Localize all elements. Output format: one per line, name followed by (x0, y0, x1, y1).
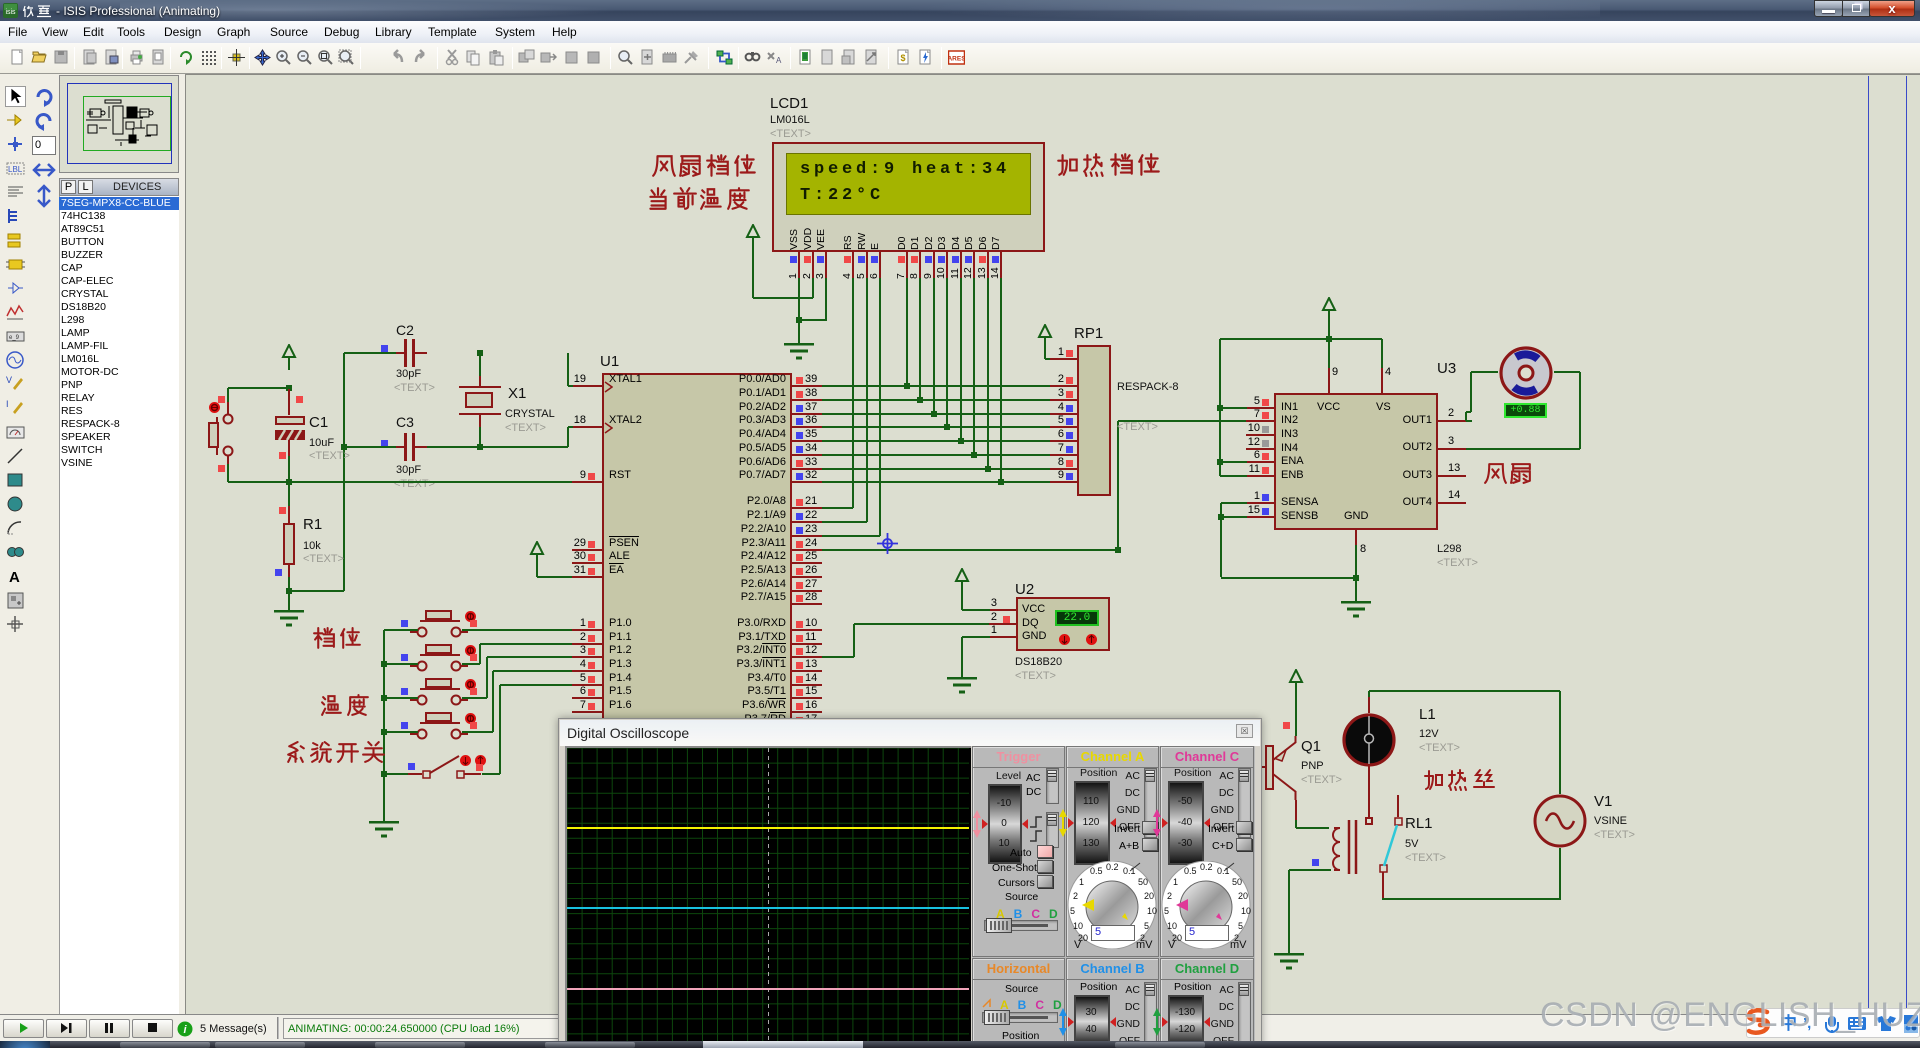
push button P1.3 (402, 710, 476, 746)
wire (462, 629, 572, 631)
ground (LCD VSS) (783, 343, 815, 361)
U3 pin 9 VCC (1328, 368, 1330, 394)
svg-text:D2: D2 (923, 236, 935, 250)
U3 pin 8 GND (1355, 530, 1357, 545)
motor U3 fan (1498, 345, 1554, 401)
LCD1 screen line1 (800, 160, 1010, 179)
scope trigger cursor (768, 748, 769, 1048)
RL1 state square (1312, 859, 1319, 866)
svg-text:mV: mV (1230, 939, 1247, 949)
wire (1559, 691, 1561, 794)
wire (946, 278, 948, 427)
LCD1 pin 5 RW (866, 252, 868, 278)
wire (1221, 577, 1356, 579)
svg-text:LBL: LBL (8, 165, 23, 174)
ime icons (1780, 1012, 1920, 1036)
close button (1869, 0, 1915, 17)
U1 pin 37 (792, 413, 822, 415)
wire (1554, 371, 1580, 373)
power terminal (Q1) (1288, 669, 1304, 695)
wire (973, 278, 975, 455)
wire IN2 (1118, 420, 1247, 422)
U1 pin 28 (792, 603, 822, 605)
U1 pin 21 (792, 507, 822, 509)
RP1 pin 9 (1050, 481, 1077, 483)
push button P1.2 (402, 676, 476, 712)
junction (931, 411, 937, 417)
svg-text:10: 10 (1147, 906, 1157, 916)
junction (381, 661, 387, 667)
push button P1.1 (402, 642, 476, 678)
RP1 value (1117, 381, 1179, 393)
U1 pin 29 (572, 549, 602, 551)
U3 pin 10 (1246, 434, 1274, 436)
wire (492, 671, 494, 732)
svg-text:V: V (6, 375, 12, 385)
wire OUT1-motor (1466, 420, 1472, 422)
wire (822, 656, 854, 658)
svg-text:50: 50 (1138, 877, 1148, 887)
svg-text:RW: RW (856, 233, 868, 250)
driver U3 label (1437, 360, 1456, 377)
svg-text:D5: D5 (963, 236, 975, 250)
wire (427, 446, 568, 448)
voltage source V1 (VSINE) (1532, 793, 1588, 849)
svg-text:D4: D4 (950, 236, 962, 250)
input method bar (1746, 1008, 1920, 1038)
relay RL1 coil (1322, 818, 1362, 880)
svg-text:5: 5 (1070, 906, 1075, 916)
power terminal (RST) (281, 344, 297, 370)
U1 pin 16 (792, 711, 822, 713)
wire (1220, 407, 1247, 409)
wire (752, 248, 754, 298)
wire button trunk (383, 630, 385, 774)
wire (822, 521, 867, 523)
U1 pin 2 (572, 643, 602, 645)
U1 pin 15 (792, 697, 822, 699)
U2 pin 1 (989, 636, 1016, 638)
U1 pin 31 (572, 576, 602, 578)
scope trace B (567, 907, 969, 909)
junction (286, 479, 292, 485)
U1 pin 11 (792, 643, 822, 645)
wire (987, 278, 989, 469)
wire (1221, 516, 1247, 518)
svg-text:2: 2 (1073, 891, 1078, 901)
U2 pin 3 (989, 609, 1016, 611)
relay RL1 contact (1365, 817, 1373, 825)
annotation temp (320, 693, 372, 723)
wire (799, 319, 826, 321)
sheet border (1868, 76, 1869, 1012)
svg-text:A: A (776, 56, 782, 65)
wire (568, 426, 573, 428)
svg-text:V: V (1168, 939, 1176, 949)
U3 pin 7 (1246, 420, 1274, 422)
transistor Q1 (PNP) (1258, 730, 1302, 800)
wire (536, 565, 538, 577)
wire (567, 353, 569, 387)
svg-text:0.5: 0.5 (1090, 866, 1103, 876)
U1 pin 18 (572, 426, 602, 428)
R1 label (303, 516, 322, 533)
wire button-C1 top (228, 387, 289, 389)
junction (477, 350, 483, 356)
annotation system switch (283, 740, 387, 770)
svg-text:VEE: VEE (815, 229, 827, 250)
U3 pin 15 (1246, 516, 1274, 518)
ground (switch trunk) (368, 821, 400, 839)
LCD1 screen line2 (800, 186, 884, 205)
U3 pin 1 (1246, 502, 1274, 504)
U3 pin 2 (1438, 420, 1466, 422)
X1 value (505, 408, 555, 420)
U1 pin 22 (792, 521, 822, 523)
svg-text:D3: D3 (936, 236, 948, 250)
transistor Q1 label (1301, 738, 1321, 755)
taskbar (0, 1041, 1920, 1048)
U1 pin 25 (792, 562, 822, 564)
resistor pack RP1 label (1074, 325, 1103, 342)
junction (985, 466, 991, 472)
svg-text:20: 20 (1144, 891, 1154, 901)
wire (486, 657, 488, 698)
annotation fan (1483, 461, 1535, 491)
wire (1328, 339, 1330, 368)
MCU U1 body (602, 373, 792, 740)
left panel background (0, 74, 185, 1015)
wire (962, 636, 990, 638)
wire (480, 643, 572, 645)
U1 pin 6 (572, 697, 602, 699)
wire (1465, 412, 1467, 421)
wire P2.3 to IN2 (822, 549, 1119, 551)
U1 pin 13 (792, 670, 822, 672)
wire (1471, 371, 1498, 373)
status field (283, 1018, 568, 1039)
svg-text:A: A (9, 569, 20, 586)
U1 pin 30 (572, 562, 602, 564)
U1 pin 9 (572, 481, 602, 483)
oscilloscope title bar (560, 720, 1260, 746)
junction (286, 588, 292, 594)
LCD1 screen (786, 153, 1031, 215)
wire (1044, 348, 1046, 359)
C3 value (396, 464, 421, 476)
U1 pin 17 (792, 725, 822, 727)
U1 pin 12 (792, 656, 822, 658)
wire (462, 663, 480, 665)
junction (1326, 336, 1332, 342)
wire (384, 663, 418, 665)
LCD1 pin 4 RS (852, 252, 854, 278)
overview minimap (59, 75, 179, 173)
wire (1355, 545, 1357, 578)
scope trace A (567, 827, 969, 829)
wire (822, 507, 853, 509)
svg-text:D6: D6 (977, 236, 989, 250)
wire (384, 629, 418, 631)
U1 pin 26 (792, 576, 822, 578)
LCD1 value LM016L (770, 114, 810, 126)
svg-text:0.2: 0.2 (1200, 862, 1213, 872)
message icon (177, 1021, 193, 1037)
wire (879, 278, 881, 536)
junction (1217, 459, 1223, 465)
RP1 pin 4 (1050, 413, 1077, 415)
svg-text:I: I (6, 399, 9, 409)
wire (798, 320, 800, 344)
wire DQ (854, 623, 989, 625)
LCD1 pin 2 VDD (812, 252, 814, 278)
U1 pin 33 (792, 468, 822, 470)
wire (288, 591, 290, 610)
wire (1288, 870, 1290, 953)
U3 pin 14 (1438, 502, 1466, 504)
capacitor C1 (electrolytic) (288, 389, 290, 415)
wire (499, 685, 501, 774)
junction (381, 729, 387, 735)
svg-text:5: 5 (1238, 921, 1243, 931)
RP1 body (1077, 345, 1111, 496)
C2 state square (381, 345, 388, 352)
junction (904, 383, 910, 389)
wire (227, 388, 229, 402)
junction (796, 317, 802, 323)
power terminal (LCD VDD) (745, 224, 761, 250)
scope control panel (972, 746, 1255, 1048)
wire (852, 507, 854, 509)
sim control button (89, 1019, 130, 1038)
wire (753, 297, 814, 299)
junction (917, 397, 923, 403)
wire (537, 576, 572, 578)
svg-text:10: 10 (1241, 906, 1251, 916)
ground (relay) (1273, 953, 1305, 971)
wire (384, 731, 418, 733)
capacitor C3 (404, 433, 407, 461)
ground (R1) (273, 610, 305, 628)
C1 value (309, 437, 334, 449)
wire relay-V1 bottom (1383, 898, 1560, 900)
wire OUT2-motor (1466, 448, 1580, 450)
C1 label (309, 414, 328, 431)
RL1 value (1405, 838, 1418, 850)
LCD1 pin 3 VEE (825, 252, 827, 278)
U1 pin 23 (792, 535, 822, 537)
wire (961, 637, 963, 677)
RP1 pin 8 (1050, 468, 1077, 470)
U1 pin 34 (792, 454, 822, 456)
menu bar (0, 21, 1920, 43)
wire (479, 427, 481, 447)
wire P0.0 bus (822, 385, 1050, 387)
svg-text:D0: D0 (896, 236, 908, 250)
wire (462, 731, 493, 733)
power terminal (U2) (954, 568, 970, 594)
capacitor C3 label (396, 414, 414, 430)
devices header (59, 178, 179, 196)
svg-text:V: V (1074, 939, 1082, 949)
U1 pin 35 (792, 440, 822, 442)
LCD1 pin 1 VSS (798, 252, 800, 278)
wire (1466, 411, 1471, 413)
wire P0.4 bus (822, 440, 1050, 442)
svg-text:1: 1 (1173, 877, 1178, 887)
L1 value (1419, 728, 1439, 740)
wire (1470, 372, 1472, 412)
LCD LCD1 label (770, 95, 808, 112)
svg-text:E: E (869, 243, 881, 250)
U2 pin 2 (989, 623, 1016, 625)
junction (944, 424, 950, 430)
svg-text:20: 20 (1238, 891, 1248, 901)
wire (853, 624, 855, 658)
junction (1217, 405, 1223, 411)
ground (L298) (1340, 601, 1372, 619)
sim control button (3, 1019, 44, 1038)
minimize button (1814, 0, 1843, 17)
junction (971, 452, 977, 458)
junction (341, 444, 347, 450)
wire (1579, 372, 1581, 448)
wire (1117, 421, 1119, 549)
RP1 pin 5 (1050, 426, 1077, 428)
wire (1000, 278, 1002, 482)
junction (958, 438, 964, 444)
svg-text:VSS: VSS (788, 229, 800, 250)
LCD1 pin 11 D4 (960, 252, 962, 278)
power terminal (EA) (529, 541, 545, 567)
wire (1045, 358, 1051, 360)
LCD1 pin 12 D5 (973, 252, 975, 278)
wire (228, 481, 290, 483)
title bar (0, 0, 1920, 21)
U1 pin 7 (572, 711, 602, 713)
svg-text:5: 5 (1144, 921, 1149, 931)
wire (288, 456, 290, 482)
wire (567, 427, 569, 447)
status bar (0, 1014, 1920, 1041)
wire lamp-V1 top (1369, 690, 1560, 692)
wire (1220, 461, 1247, 463)
U1 pin 27 (792, 590, 822, 592)
wire P0.3 bus (822, 426, 1050, 428)
wire (1355, 578, 1357, 603)
annotation heat-gear (1055, 152, 1163, 183)
wire (906, 278, 908, 386)
capacitor C2 (404, 339, 407, 367)
C3 state square (381, 440, 388, 447)
oscilloscope window frame (558, 718, 1262, 1048)
oscilloscope window (0, 0, 1920, 1)
annotation current-temp (645, 186, 753, 217)
wire P0.5 bus (822, 454, 1050, 456)
svg-text:5: 5 (1164, 906, 1169, 916)
wire (344, 352, 396, 354)
svg-text:e_9: e_9 (9, 335, 20, 341)
relay RL1 label (1405, 815, 1433, 832)
junction (381, 695, 387, 701)
RP1 pin 2 (1050, 385, 1077, 387)
wire (933, 278, 935, 414)
junction (1218, 514, 1224, 520)
wire (825, 278, 827, 321)
U1 pin 1 (572, 629, 602, 631)
wire (1295, 820, 1297, 828)
crystal X1 (459, 386, 501, 388)
crystal X1 label (508, 385, 526, 402)
capacitor C2 label (396, 322, 414, 338)
U1 pin 10 (792, 629, 822, 631)
svg-text:D7: D7 (990, 236, 1002, 250)
restore button (1842, 0, 1870, 17)
U3 pin 6 (1246, 461, 1274, 463)
wire Q1-relay (1296, 827, 1329, 829)
motor value display (1504, 403, 1547, 418)
wire (919, 278, 921, 400)
U1 pin 24 (792, 549, 822, 551)
scope trace C (567, 988, 969, 990)
LCD1 pin 14 D7 (1000, 252, 1002, 278)
sim control button (132, 1019, 173, 1038)
wire P0.6 bus (822, 468, 1050, 470)
wire (852, 278, 854, 508)
svg-text:mV: mV (1136, 939, 1153, 949)
ground (U2) (946, 677, 978, 695)
wire (383, 774, 385, 821)
U3 value (1437, 543, 1461, 555)
U1 pin 4 (572, 670, 602, 672)
push button (reset) (203, 394, 239, 468)
svg-text:VDD: VDD (802, 227, 814, 250)
power terminal (RP1) (1037, 324, 1053, 350)
R1 value (303, 540, 321, 552)
svg-text:RS: RS (842, 235, 854, 250)
U3 pin 11 (1246, 475, 1274, 477)
U2 indicator LEDs (1058, 633, 1071, 646)
U3 pin 12 (1246, 448, 1274, 450)
U1 pin 32 (792, 481, 822, 483)
wire (1295, 693, 1297, 736)
U3 pin 4 VS (1381, 368, 1383, 394)
svg-text:D1: D1 (909, 236, 921, 250)
wire (1221, 502, 1247, 504)
wire (482, 773, 500, 775)
svg-text:2: 2 (1167, 891, 1172, 901)
wire (866, 278, 868, 522)
RP1 pin 1 (1050, 358, 1077, 360)
U1 pin 5 (572, 684, 602, 686)
svg-text:10: 10 (1167, 921, 1177, 931)
wire P0.1 bus (822, 399, 1050, 401)
wire (1368, 691, 1370, 697)
device list (59, 196, 179, 1014)
wire (568, 385, 573, 387)
wire (384, 697, 418, 699)
push button P1.0 (402, 608, 476, 644)
LCD LCD1 body (772, 142, 1045, 252)
svg-text:10: 10 (1073, 921, 1083, 931)
wire (1382, 898, 1384, 900)
wire (227, 464, 229, 482)
wire (812, 278, 814, 298)
U3 pin 13 (1438, 475, 1466, 477)
power terminal (L298) (1321, 297, 1337, 323)
sensor U2 label (1015, 581, 1034, 598)
sim control button (46, 1019, 87, 1038)
